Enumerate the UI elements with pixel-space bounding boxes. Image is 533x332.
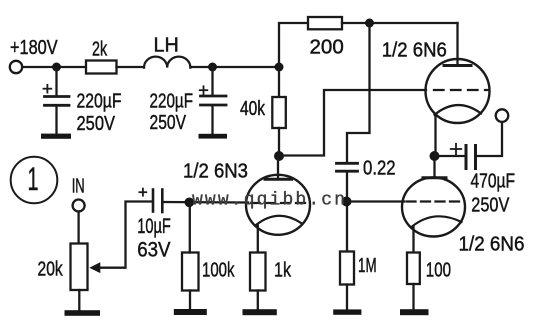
wire node C up and to 200 resistor [279,23,308,96]
terminal +180V input [10,61,22,73]
wire coupling V1 plate to V2 grid [279,90,426,156]
resistor 1M [340,252,354,285]
wire V3 cathode lead [412,227,414,253]
junction node H (10uF / 100k / grid) [185,198,195,208]
ground under C1 [41,134,71,139]
wire 100 to ground [412,284,414,310]
wiper arrowhead [89,262,100,273]
ground under 1M [333,309,361,314]
wire 100k to ground [189,291,191,310]
wire 1k to ground [257,291,259,310]
wire C4 to node F and 1M [346,173,348,251]
wire V1 cathode lead [257,226,259,253]
resistor 100 [407,253,420,285]
svg-text:1k: 1k [274,260,292,282]
tube V3 cathode arc [411,216,461,227]
svg-text:www.qqibb.cn: www.qqibb.cn [192,190,345,210]
wire 40k to V1 plate node [278,128,280,156]
wire 20k to ground [78,290,80,310]
junction node B (C2 tap) [208,63,217,72]
svg-text:40k: 40k [240,98,266,120]
wire V2 plate lead [456,23,458,64]
wire C1 upper lead [55,69,57,96]
potentiometer 20k body [71,244,88,291]
ground under C2 [199,134,228,139]
svg-text:LH: LH [154,35,179,57]
wire IN to potentiometer [77,212,79,245]
polarity plus of C1 [44,85,52,93]
tube V2 cathode arc [435,105,482,115]
svg-text:1/2 6N6: 1/2 6N6 [382,40,447,62]
junction node E (V1 plate) [274,151,284,161]
wire V3 plate lead [433,156,435,177]
tube V2 grid (dashed) [434,89,489,91]
tube V1 grid (dashed) [251,202,308,204]
tube V1 1/2 6N3 envelope [246,175,310,235]
wire V1 grid from node H [164,201,249,204]
tube V3 1/2 6N6 envelope [402,178,465,237]
terminal output [496,109,509,122]
resistor 40k [272,97,286,128]
svg-text:220µF: 220µF [150,91,194,113]
tube V3 plate bar [423,176,446,179]
wire LH to node C (B+ rail) [190,66,279,68]
svg-text:100k: 100k [202,260,235,282]
svg-text:1: 1 [28,161,39,197]
polarity plus of C5 [451,144,461,154]
svg-text:0.22: 0.22 [363,158,396,180]
resistor 2k [86,61,117,74]
svg-text:2k: 2k [92,38,108,60]
capacitor C5 470uF plates [466,146,476,169]
ground under 100k [174,309,207,315]
svg-text:20k: 20k [38,259,64,281]
wire C2 lower lead [211,106,213,135]
resistor 1k [250,253,266,291]
ground under 1k [243,309,277,315]
capacitor C2 220uF plates [201,96,227,105]
svg-text:250V: 250V [471,195,510,217]
resistor 200 [308,17,342,29]
svg-text:+180V: +180V [10,37,58,59]
svg-text:1/2 6N3: 1/2 6N3 [183,161,248,183]
svg-text:250V: 250V [150,112,187,134]
wire V1 plate lead [277,156,279,178]
figure number circle 1 [11,157,58,204]
tube V3 grid (dashed) [407,200,464,202]
svg-text:10µF: 10µF [137,215,171,238]
junction node F (V3 grid) [342,197,352,207]
wire V2 cathode lead [434,116,436,156]
wire C1 lower lead [55,107,57,135]
wire 200 to tube V2 plate corner [342,22,458,24]
ground under 20k [65,310,101,316]
polarity plus of C2 [200,86,208,94]
svg-text:470µF: 470µF [471,171,516,193]
tube V1 plate bar [265,178,292,181]
svg-text:IN: IN [72,176,85,198]
ground under 100 [400,309,429,315]
terminal IN [73,200,85,212]
tube V1 cathode arc [256,216,301,225]
wire 1M to ground [346,285,348,310]
svg-text:250V: 250V [77,113,116,135]
wire node D down to C4 0.22 [347,23,370,162]
inductor LH [144,57,190,68]
svg-text:1M: 1M [358,255,377,277]
wire wiper to C3 [100,202,152,268]
wire C2 upper lead [211,69,213,95]
wire 100k upper lead [189,203,191,253]
svg-text:100: 100 [426,260,451,282]
svg-text:220µF: 220µF [77,91,122,113]
junction node C (40k/200 tap) [275,63,284,72]
capacitor C1 220uF plates [45,97,70,106]
wire node G to C5 [435,155,464,157]
op V2 plate bar [444,64,471,67]
junction node D (0.22 tap) [365,19,374,28]
wire 2k to LH [117,66,145,68]
junction node G (V2 cathode / V3 plate) [430,151,440,161]
capacitor C3 10uF plates [153,190,162,213]
tube V2 1/2 6N6 envelope [426,59,490,123]
svg-text:1/2 6N6: 1/2 6N6 [459,234,525,256]
svg-text:200: 200 [310,37,344,59]
polarity plus of C3 [139,189,146,196]
capacitor C4 0.22 plates [337,163,358,171]
wire V3 grid [347,200,405,202]
wire C5 to output terminal [478,122,503,156]
resistor 100k [182,253,199,291]
svg-text:63V: 63V [137,239,170,262]
wire B+ rail from terminal to 2k [23,66,87,68]
junction node A (C1 tap) [52,63,61,72]
